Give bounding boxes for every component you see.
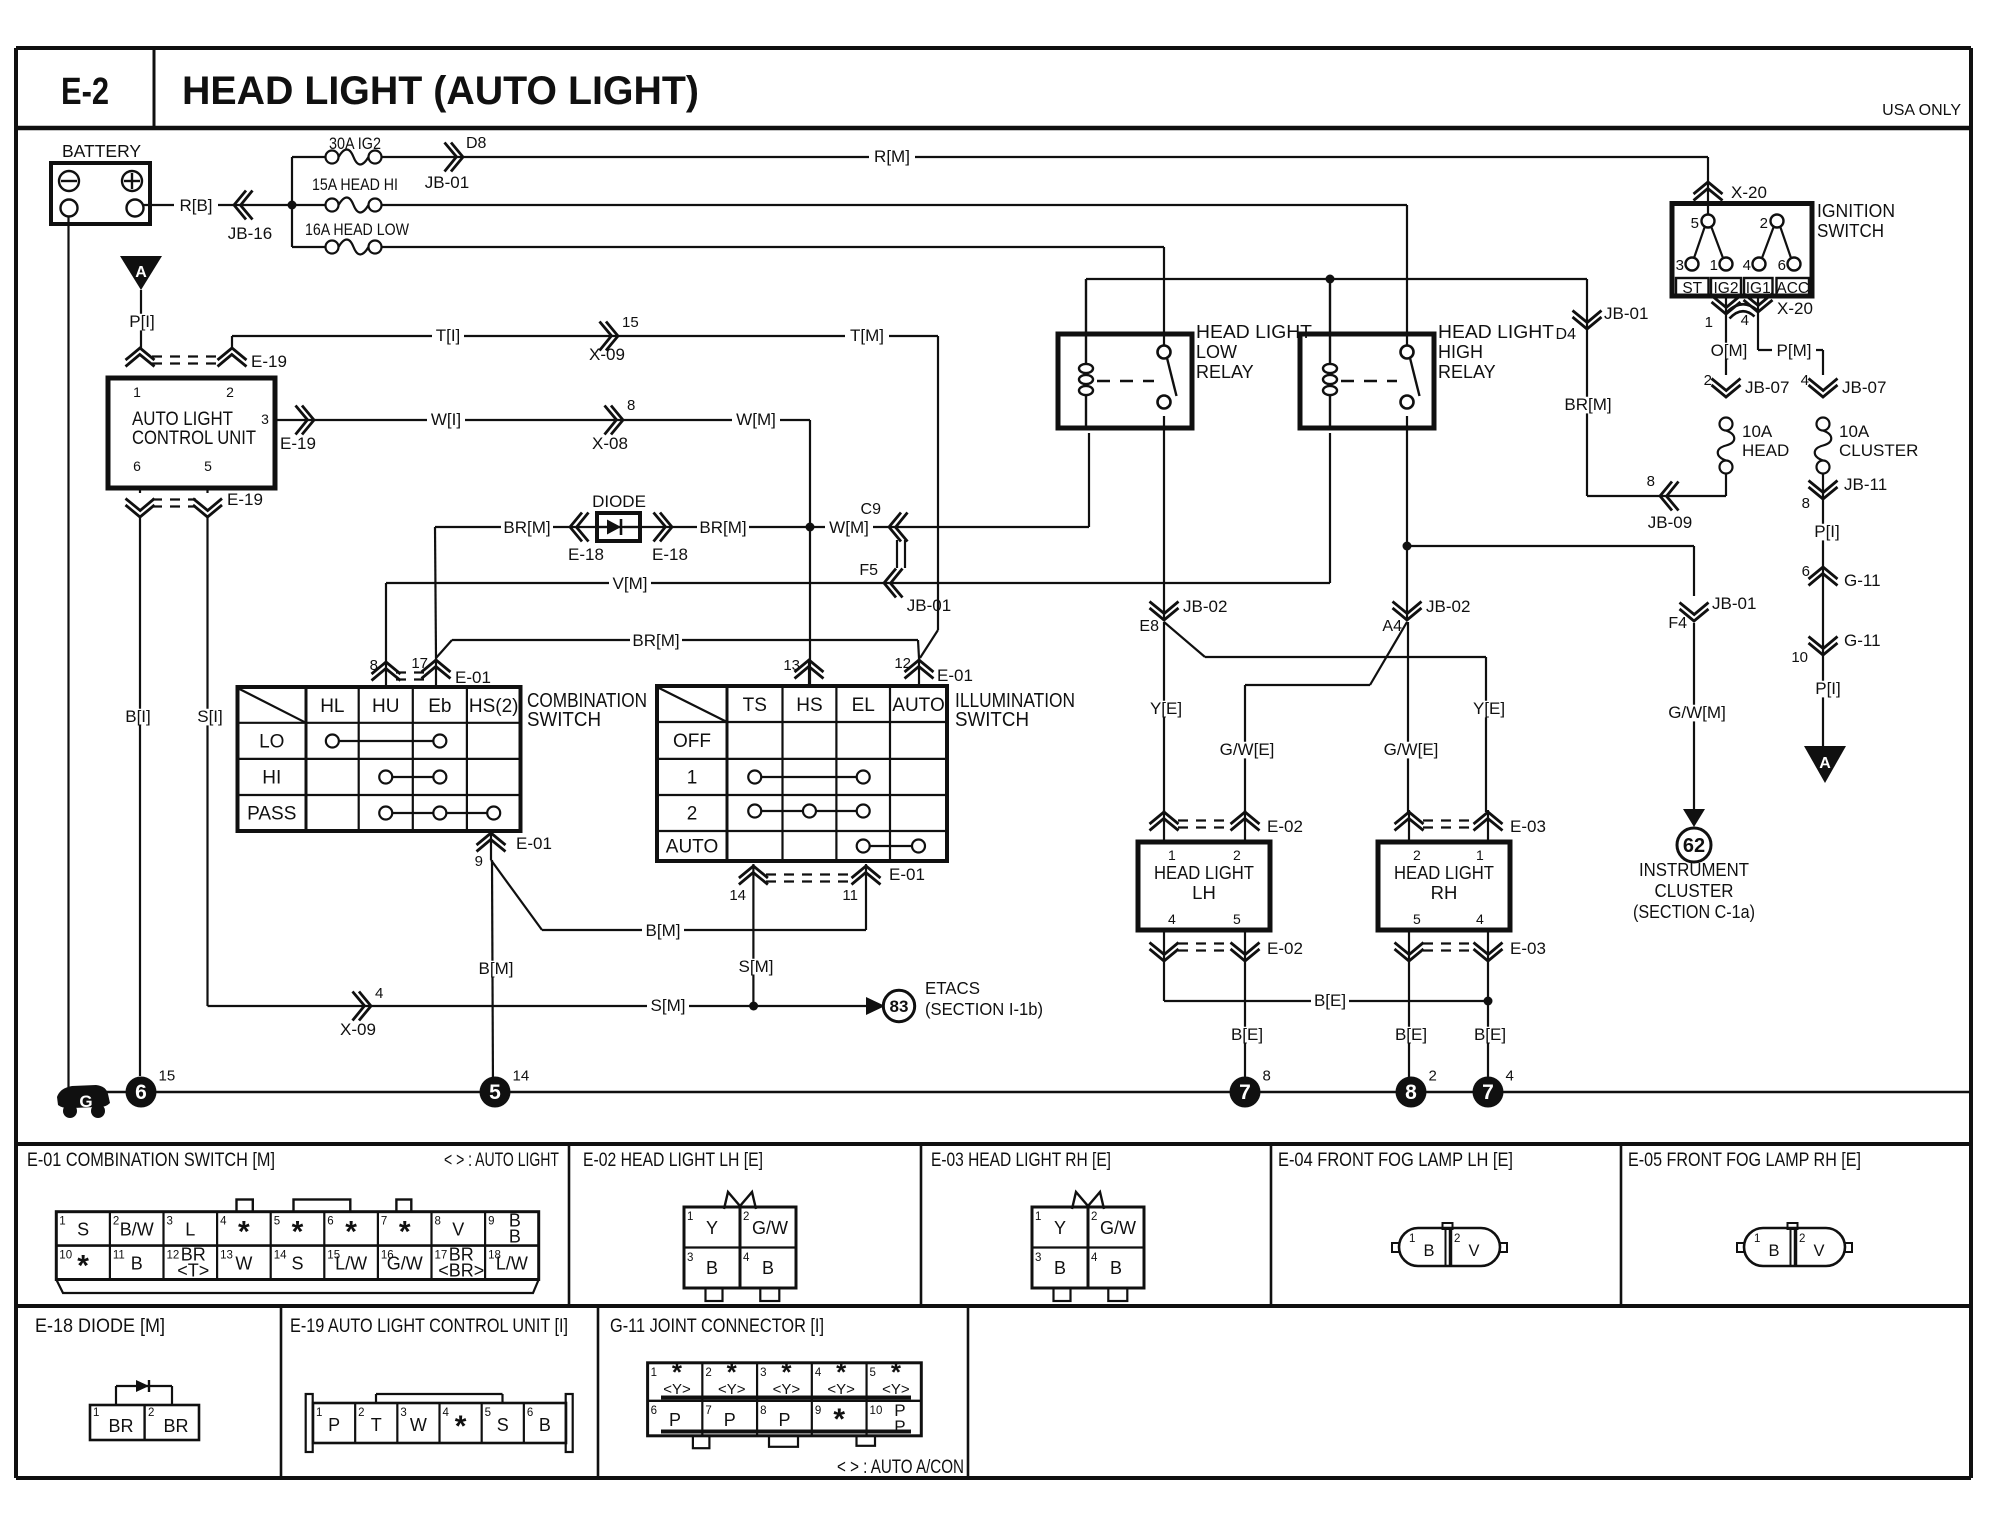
svg-text:B: B [1054, 1258, 1066, 1278]
svg-text:E-02: E-02 [1267, 939, 1303, 958]
svg-text:S: S [291, 1254, 303, 1274]
svg-text:10: 10 [870, 1405, 883, 1417]
svg-text:B: B [706, 1258, 718, 1278]
svg-text:B[E]: B[E] [1314, 991, 1346, 1010]
svg-text:R[M]: R[M] [874, 147, 910, 166]
svg-text:5: 5 [1233, 911, 1241, 927]
svg-text:5: 5 [870, 1367, 876, 1379]
svg-text:OFF: OFF [673, 731, 711, 752]
svg-text:B[E]: B[E] [1395, 1025, 1427, 1044]
svg-text:IGNITION: IGNITION [1817, 201, 1895, 221]
svg-text:BR[M]: BR[M] [503, 518, 550, 537]
svg-text:A: A [135, 264, 147, 281]
svg-text:4: 4 [1091, 1252, 1098, 1264]
svg-text:5: 5 [1691, 215, 1699, 232]
svg-text:4: 4 [1741, 312, 1749, 329]
svg-text:L/W: L/W [496, 1254, 528, 1274]
svg-text:5: 5 [1413, 911, 1421, 927]
svg-text:3: 3 [1035, 1252, 1041, 1264]
svg-text:ETACS: ETACS [925, 978, 980, 998]
svg-text:JB-02: JB-02 [1426, 597, 1470, 616]
svg-text:E-19 AUTO LIGHT CONTROL UNIT [: E-19 AUTO LIGHT CONTROL UNIT [I] [290, 1315, 568, 1337]
svg-text:L: L [185, 1220, 195, 1240]
svg-text:BR: BR [108, 1416, 133, 1436]
svg-text:6: 6 [527, 1407, 533, 1419]
svg-text:W[M]: W[M] [829, 518, 869, 537]
svg-text:E-18: E-18 [568, 545, 604, 564]
svg-text:E-03 HEAD LIGHT RH [E]: E-03 HEAD LIGHT RH [E] [931, 1149, 1111, 1171]
svg-text:5: 5 [485, 1407, 491, 1419]
svg-text:E-02: E-02 [1267, 817, 1303, 836]
svg-text:7: 7 [705, 1405, 711, 1417]
svg-text:G-11: G-11 [1844, 631, 1881, 650]
svg-text:P: P [328, 1415, 340, 1435]
svg-text:JB-02: JB-02 [1183, 597, 1227, 616]
svg-text:TS: TS [743, 695, 767, 716]
svg-text:E-03: E-03 [1510, 817, 1546, 836]
svg-text:S[M]: S[M] [739, 957, 774, 976]
svg-text:*: * [292, 1216, 304, 1249]
svg-text:BATTERY: BATTERY [62, 141, 141, 161]
svg-text:B[M]: B[M] [479, 959, 514, 978]
svg-text:11: 11 [842, 887, 858, 904]
svg-text:Y: Y [706, 1218, 718, 1238]
svg-text:<BR>: <BR> [438, 1261, 484, 1281]
svg-text:T: T [371, 1415, 382, 1435]
svg-text:HIGH: HIGH [1438, 342, 1483, 362]
svg-text:8: 8 [435, 1216, 441, 1228]
svg-text:(SECTION C-1a): (SECTION C-1a) [1633, 901, 1755, 922]
svg-text:P[M]: P[M] [1777, 341, 1812, 360]
svg-text:1: 1 [651, 1367, 657, 1379]
svg-text:JB-07: JB-07 [1842, 378, 1886, 397]
svg-text:7: 7 [1482, 1081, 1494, 1104]
svg-text:6: 6 [135, 1081, 147, 1104]
svg-text:Y[E]: Y[E] [1150, 699, 1182, 718]
svg-text:E-19: E-19 [280, 434, 316, 453]
svg-text:RELAY: RELAY [1196, 362, 1254, 382]
svg-text:PASS: PASS [247, 804, 296, 825]
svg-text:F5: F5 [859, 562, 878, 579]
svg-text:4: 4 [220, 1216, 227, 1228]
svg-text:B[M]: B[M] [646, 921, 681, 940]
svg-text:3: 3 [1676, 257, 1684, 274]
svg-text:ST: ST [1682, 280, 1702, 297]
svg-text:B[I]: B[I] [125, 707, 151, 726]
svg-text:HEAD: HEAD [1742, 441, 1789, 460]
svg-text:1: 1 [1035, 1211, 1041, 1223]
svg-text:10: 10 [1791, 649, 1808, 666]
svg-text:1: 1 [1705, 314, 1713, 331]
svg-text:2: 2 [1799, 1233, 1805, 1245]
svg-text:D4: D4 [1556, 326, 1577, 343]
svg-text:LH: LH [1192, 882, 1216, 903]
svg-text:B: B [762, 1258, 774, 1278]
svg-text:B: B [539, 1415, 551, 1435]
svg-text:E-01: E-01 [455, 668, 491, 687]
svg-text:HEAD LIGHT: HEAD LIGHT [1438, 322, 1554, 342]
svg-text:< > : AUTO A/CON: < > : AUTO A/CON [837, 1457, 964, 1478]
svg-text:INSTRUMENT: INSTRUMENT [1639, 859, 1749, 880]
svg-text:S[M]: S[M] [651, 996, 686, 1015]
svg-text:<Y>: <Y> [773, 1381, 801, 1398]
svg-text:<Y>: <Y> [663, 1381, 691, 1398]
svg-text:P[I]: P[I] [1814, 522, 1840, 541]
svg-text:4: 4 [1801, 372, 1809, 389]
svg-text:<Y>: <Y> [827, 1381, 855, 1398]
svg-text:1: 1 [687, 767, 698, 788]
svg-text:SWITCH: SWITCH [1817, 221, 1884, 241]
svg-text:X-08: X-08 [592, 434, 628, 453]
svg-text:*: * [399, 1216, 411, 1249]
svg-text:RELAY: RELAY [1438, 362, 1496, 382]
svg-text:<Y>: <Y> [882, 1381, 910, 1398]
svg-text:4: 4 [815, 1367, 822, 1379]
svg-text:HL: HL [320, 696, 344, 717]
svg-text:P[I]: P[I] [1815, 679, 1841, 698]
svg-text:W: W [235, 1254, 252, 1274]
svg-text:14: 14 [513, 1068, 530, 1085]
svg-text:P[I]: P[I] [129, 312, 155, 331]
svg-text:5: 5 [489, 1081, 501, 1104]
svg-text:15A HEAD HI: 15A HEAD HI [312, 175, 398, 194]
svg-text:E8: E8 [1139, 618, 1159, 635]
svg-text:AUTO: AUTO [666, 837, 718, 858]
svg-text:JB-01: JB-01 [425, 173, 469, 192]
svg-text:1: 1 [133, 384, 141, 400]
svg-text:HEAD LIGHT (AUTO LIGHT): HEAD LIGHT (AUTO LIGHT) [182, 69, 699, 113]
svg-text:W[I]: W[I] [431, 410, 461, 429]
svg-text:E-01: E-01 [516, 834, 552, 853]
svg-text:G/W[E]: G/W[E] [1384, 740, 1439, 759]
svg-text:2: 2 [1091, 1211, 1097, 1223]
svg-text:E-2: E-2 [61, 71, 109, 113]
svg-text:E-05 FRONT FOG LAMP RH [E]: E-05 FRONT FOG LAMP RH [E] [1628, 1149, 1861, 1171]
svg-text:C9: C9 [861, 501, 882, 518]
svg-text:8: 8 [370, 657, 378, 674]
svg-text:16A HEAD LOW: 16A HEAD LOW [305, 220, 409, 239]
svg-text:8: 8 [1647, 473, 1655, 490]
svg-text:G-11 JOINT CONNECTOR [I]: G-11 JOINT CONNECTOR [I] [610, 1315, 824, 1337]
svg-text:LO: LO [259, 731, 284, 752]
svg-text:JB-01: JB-01 [1712, 594, 1756, 613]
svg-text:SWITCH: SWITCH [527, 709, 601, 731]
svg-text:2: 2 [705, 1367, 711, 1379]
svg-text:O[M]: O[M] [1711, 341, 1748, 360]
svg-text:1: 1 [687, 1211, 693, 1223]
svg-text:4: 4 [375, 985, 383, 1002]
svg-text:DIODE: DIODE [592, 492, 646, 511]
svg-text:S[I]: S[I] [197, 707, 223, 726]
svg-text:(SECTION I-1b): (SECTION I-1b) [925, 999, 1043, 1019]
svg-text:8: 8 [1263, 1068, 1271, 1085]
svg-text:7: 7 [381, 1216, 387, 1228]
svg-text:3: 3 [400, 1407, 406, 1419]
svg-text:B[E]: B[E] [1231, 1025, 1263, 1044]
svg-text:V[M]: V[M] [613, 574, 648, 593]
svg-text:B: B [1768, 1242, 1779, 1260]
svg-text:6: 6 [651, 1405, 657, 1417]
svg-text:V: V [1813, 1242, 1824, 1260]
svg-text:X-09: X-09 [589, 345, 625, 364]
svg-text:10A: 10A [1839, 422, 1870, 441]
svg-text:E-03: E-03 [1510, 939, 1546, 958]
svg-text:B[E]: B[E] [1474, 1025, 1506, 1044]
svg-text:2: 2 [1454, 1233, 1460, 1245]
svg-text:*: * [345, 1216, 357, 1249]
svg-text:83: 83 [890, 997, 909, 1016]
svg-text:12: 12 [894, 655, 911, 672]
svg-text:LOW: LOW [1196, 342, 1237, 362]
svg-text:CONTROL UNIT: CONTROL UNIT [132, 427, 256, 449]
svg-text:E-01: E-01 [937, 666, 973, 685]
svg-text:B/W: B/W [120, 1220, 154, 1240]
svg-text:Eb: Eb [428, 696, 451, 717]
svg-text:S: S [77, 1220, 89, 1240]
svg-text:V: V [452, 1220, 464, 1240]
svg-text:2: 2 [148, 1407, 154, 1419]
svg-text:HEAD LIGHT: HEAD LIGHT [1154, 862, 1254, 883]
svg-text:<Y>: <Y> [718, 1381, 746, 1398]
svg-text:2: 2 [1233, 847, 1241, 863]
svg-text:JB-07: JB-07 [1745, 378, 1789, 397]
svg-text:1: 1 [1168, 847, 1176, 863]
svg-text:X-20: X-20 [1731, 183, 1767, 202]
svg-text:2: 2 [113, 1216, 119, 1228]
svg-text:JB-16: JB-16 [228, 224, 272, 243]
svg-text:BR[M]: BR[M] [1564, 395, 1611, 414]
svg-text:ACC: ACC [1776, 280, 1809, 297]
svg-text:2: 2 [1760, 215, 1768, 232]
svg-text:10: 10 [59, 1250, 72, 1262]
svg-text:E-19: E-19 [227, 490, 263, 509]
svg-text:15: 15 [159, 1068, 176, 1085]
svg-text:3: 3 [687, 1252, 693, 1264]
svg-text:1: 1 [1754, 1233, 1760, 1245]
svg-text:G/W[E]: G/W[E] [1220, 740, 1275, 759]
svg-text:1: 1 [1409, 1233, 1415, 1245]
svg-text:P: P [724, 1410, 736, 1430]
svg-text:9: 9 [475, 853, 483, 870]
svg-text:D8: D8 [466, 135, 487, 152]
svg-text:2: 2 [687, 804, 698, 825]
svg-text:T[M]: T[M] [850, 326, 884, 345]
svg-text:2: 2 [358, 1407, 364, 1419]
svg-text:G/W: G/W [387, 1254, 423, 1274]
svg-text:B: B [131, 1254, 143, 1274]
svg-text:9: 9 [488, 1216, 494, 1228]
svg-text:4: 4 [743, 1252, 750, 1264]
svg-text:2: 2 [226, 384, 234, 400]
svg-text:2: 2 [1413, 847, 1421, 863]
svg-text:8: 8 [760, 1405, 766, 1417]
svg-text:BR[M]: BR[M] [699, 518, 746, 537]
svg-text:3: 3 [261, 411, 269, 427]
svg-text:E-18: E-18 [652, 545, 688, 564]
svg-text:CLUSTER: CLUSTER [1839, 441, 1918, 460]
svg-text:Y[E]: Y[E] [1473, 699, 1505, 718]
svg-text:L/W: L/W [335, 1254, 367, 1274]
svg-text:E-19: E-19 [251, 352, 287, 371]
svg-text:HEAD LIGHT: HEAD LIGHT [1394, 862, 1494, 883]
svg-text:62: 62 [1683, 835, 1705, 857]
svg-text:HEAD LIGHT: HEAD LIGHT [1196, 322, 1312, 342]
svg-text:*: * [455, 1410, 467, 1443]
svg-text:HI: HI [262, 767, 281, 788]
svg-text:30A IG2: 30A IG2 [329, 134, 381, 153]
svg-text:T[I]: T[I] [436, 326, 461, 345]
svg-text:USA ONLY: USA ONLY [1882, 102, 1961, 119]
svg-text:A4: A4 [1382, 618, 1402, 635]
svg-text:6: 6 [133, 458, 141, 474]
svg-text:4: 4 [443, 1407, 450, 1419]
svg-text:G/W: G/W [1100, 1218, 1136, 1238]
svg-text:F4: F4 [1668, 615, 1687, 632]
svg-text:4: 4 [1506, 1068, 1514, 1085]
svg-text:P: P [894, 1417, 905, 1436]
svg-text:1: 1 [59, 1216, 65, 1228]
svg-text:2: 2 [743, 1211, 749, 1223]
svg-text:2: 2 [1429, 1068, 1437, 1085]
svg-text:4: 4 [1476, 911, 1484, 927]
svg-text:CLUSTER: CLUSTER [1655, 880, 1734, 901]
svg-text:1: 1 [93, 1407, 99, 1419]
svg-text:5: 5 [204, 458, 212, 474]
svg-text:G-11: G-11 [1844, 571, 1881, 590]
svg-text:JB-01: JB-01 [1604, 304, 1648, 323]
svg-text:R[B]: R[B] [179, 196, 212, 215]
svg-text:B: B [1423, 1242, 1434, 1260]
svg-text:JB-09: JB-09 [1648, 513, 1692, 532]
svg-text:P: P [669, 1410, 681, 1430]
svg-text:B: B [1110, 1258, 1122, 1278]
svg-text:E-01 COMBINATION SWITCH [M]: E-01 COMBINATION SWITCH [M] [27, 1149, 275, 1171]
svg-text:< > : AUTO LIGHT: < > : AUTO LIGHT [444, 1150, 559, 1171]
svg-text:10A: 10A [1742, 422, 1773, 441]
svg-text:6: 6 [1778, 257, 1786, 274]
svg-text:A: A [1819, 755, 1831, 772]
svg-text:E-04 FRONT FOG LAMP LH [E]: E-04 FRONT FOG LAMP LH [E] [1278, 1149, 1513, 1171]
svg-text:6: 6 [1802, 563, 1810, 580]
svg-text:E-01: E-01 [889, 865, 925, 884]
svg-text:4: 4 [1743, 257, 1751, 274]
svg-text:1: 1 [316, 1407, 322, 1419]
svg-text:8: 8 [1405, 1081, 1417, 1104]
svg-text:<T>: <T> [177, 1261, 209, 1281]
svg-text:3: 3 [760, 1367, 766, 1379]
svg-text:E-02 HEAD LIGHT LH [E]: E-02 HEAD LIGHT LH [E] [583, 1149, 763, 1171]
svg-text:AUTO: AUTO [892, 695, 944, 716]
svg-text:B: B [509, 1227, 521, 1247]
svg-text:G/W: G/W [752, 1218, 788, 1238]
svg-text:14: 14 [729, 887, 746, 904]
svg-text:6: 6 [327, 1216, 333, 1228]
svg-text:13: 13 [783, 657, 800, 674]
svg-text:*: * [238, 1216, 250, 1249]
svg-text:G: G [79, 1092, 92, 1111]
svg-text:17: 17 [411, 655, 428, 672]
svg-text:IG2: IG2 [1714, 280, 1739, 297]
svg-text:W: W [410, 1415, 427, 1435]
svg-text:G/W[M]: G/W[M] [1668, 703, 1726, 722]
svg-text:E-18 DIODE [M]: E-18 DIODE [M] [35, 1315, 165, 1337]
svg-text:13: 13 [220, 1250, 233, 1262]
svg-text:W[M]: W[M] [736, 410, 776, 429]
svg-text:BR: BR [163, 1416, 188, 1436]
svg-text:7: 7 [1239, 1081, 1251, 1104]
svg-text:V: V [1468, 1242, 1479, 1260]
svg-text:RH: RH [1431, 882, 1458, 903]
svg-text:SWITCH: SWITCH [955, 709, 1029, 731]
svg-text:P: P [778, 1410, 790, 1430]
svg-text:X-20: X-20 [1777, 299, 1813, 318]
svg-text:5: 5 [274, 1216, 280, 1228]
svg-text:BR[M]: BR[M] [632, 631, 679, 650]
svg-text:X-09: X-09 [340, 1020, 376, 1039]
svg-text:HS(2): HS(2) [469, 696, 519, 717]
svg-text:*: * [77, 1250, 89, 1283]
svg-text:HS: HS [796, 695, 822, 716]
svg-text:HU: HU [372, 696, 399, 717]
svg-text:Y: Y [1054, 1218, 1066, 1238]
svg-text:2: 2 [1704, 372, 1712, 389]
svg-text:11: 11 [113, 1250, 125, 1262]
svg-text:JB-11: JB-11 [1844, 475, 1887, 494]
svg-text:8: 8 [627, 397, 635, 414]
svg-text:1: 1 [1476, 847, 1484, 863]
svg-text:4: 4 [1168, 911, 1176, 927]
svg-text:9: 9 [815, 1405, 821, 1417]
svg-text:EL: EL [852, 695, 875, 716]
svg-text:3: 3 [167, 1216, 173, 1228]
svg-text:*: * [833, 1403, 845, 1436]
svg-text:IG1: IG1 [1746, 280, 1771, 297]
svg-text:14: 14 [274, 1250, 287, 1262]
svg-text:1: 1 [1710, 257, 1718, 274]
svg-text:15: 15 [622, 314, 639, 331]
svg-text:S: S [497, 1415, 509, 1435]
svg-text:8: 8 [1802, 495, 1810, 512]
svg-text:JB-01: JB-01 [907, 596, 951, 615]
